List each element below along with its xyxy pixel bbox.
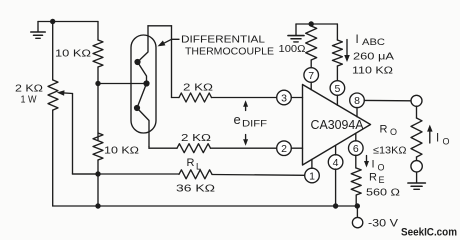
svg-text:E: E xyxy=(379,175,385,185)
svg-text:O: O xyxy=(378,162,385,172)
svg-text:560 Ω: 560 Ω xyxy=(366,187,400,199)
svg-text:10 KΩ: 10 KΩ xyxy=(104,145,139,157)
svg-text:e: e xyxy=(234,112,241,127)
svg-text:I: I xyxy=(356,34,359,46)
svg-text:≤13KΩ: ≤13KΩ xyxy=(373,145,407,157)
svg-text:2: 2 xyxy=(281,143,287,155)
svg-text:I: I xyxy=(372,159,375,171)
svg-text:3: 3 xyxy=(281,92,287,104)
svg-text:5: 5 xyxy=(334,83,340,95)
svg-text:100Ω: 100Ω xyxy=(279,43,306,55)
svg-text:DIFF: DIFF xyxy=(242,118,268,128)
svg-text:4: 4 xyxy=(333,157,339,169)
svg-text:R: R xyxy=(187,157,195,169)
svg-text:260 μA: 260 μA xyxy=(353,51,394,63)
svg-text:6: 6 xyxy=(353,143,359,155)
svg-text:SeekIC.com: SeekIC.com xyxy=(401,227,457,239)
svg-text:O: O xyxy=(390,127,397,137)
svg-text:110 KΩ: 110 KΩ xyxy=(352,65,393,77)
svg-text:1: 1 xyxy=(309,170,315,182)
svg-text:ABC: ABC xyxy=(362,37,386,47)
svg-text:8: 8 xyxy=(354,95,360,107)
svg-text:THERMOCOUPLE: THERMOCOUPLE xyxy=(185,46,274,57)
svg-text:7: 7 xyxy=(308,70,314,82)
svg-text:I: I xyxy=(436,132,439,144)
svg-text:2 KΩ: 2 KΩ xyxy=(181,132,211,144)
svg-text:L: L xyxy=(196,162,201,172)
svg-text:O: O xyxy=(443,136,450,146)
svg-text:CA3094A: CA3094A xyxy=(311,118,365,132)
svg-text:R: R xyxy=(380,124,388,136)
svg-text:36 KΩ: 36 KΩ xyxy=(176,182,215,194)
svg-text:-30 V: -30 V xyxy=(368,218,399,230)
svg-text:R: R xyxy=(369,172,377,184)
svg-text:10 KΩ: 10 KΩ xyxy=(55,47,91,59)
svg-text:1 W: 1 W xyxy=(21,93,37,105)
svg-text:2 KΩ: 2 KΩ xyxy=(183,81,213,93)
svg-text:DIFFERENTIAL: DIFFERENTIAL xyxy=(181,34,266,45)
